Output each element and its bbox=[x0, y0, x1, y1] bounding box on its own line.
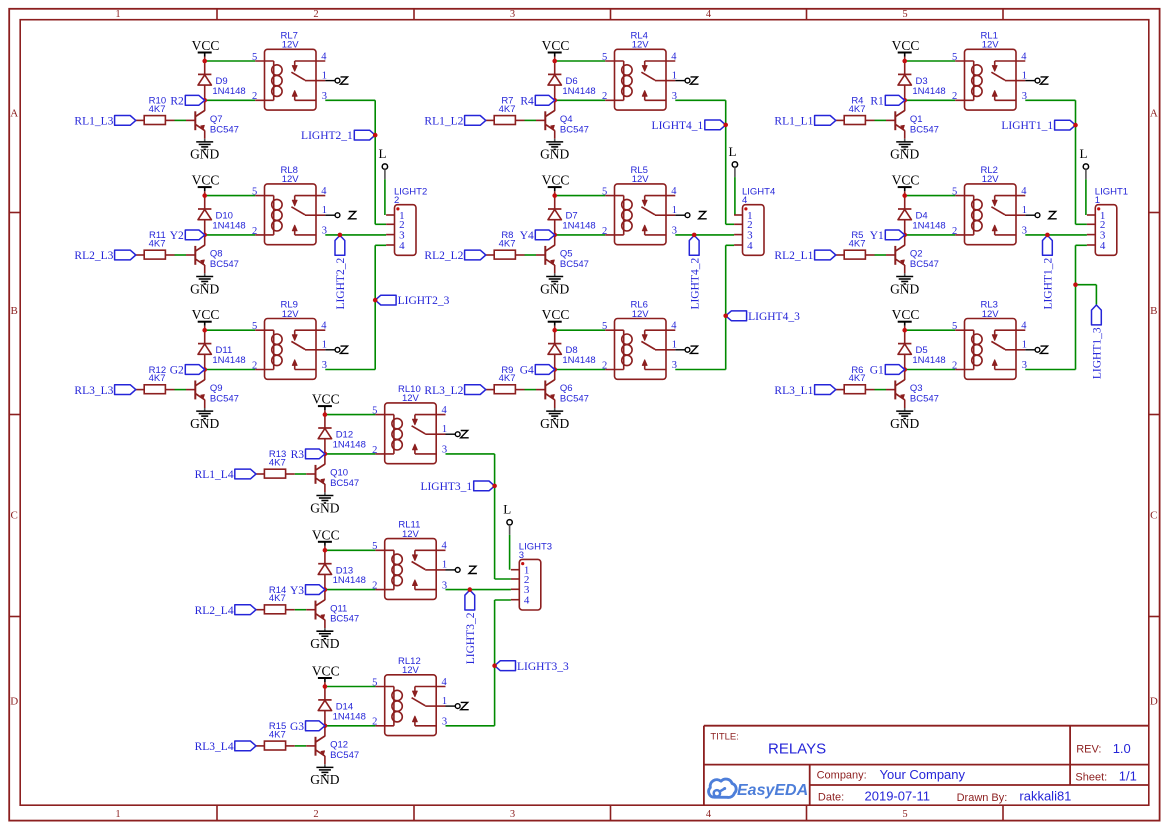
svg-text:LIGHT1_3: LIGHT1_3 bbox=[1092, 327, 1104, 379]
svg-text:1: 1 bbox=[442, 424, 447, 435]
svg-text:BC547: BC547 bbox=[560, 124, 589, 135]
svg-text:RELAYS: RELAYS bbox=[768, 740, 826, 757]
svg-text:RL3_L4: RL3_L4 bbox=[195, 741, 234, 753]
svg-text:1: 1 bbox=[1095, 195, 1100, 206]
svg-text:Q9: Q9 bbox=[210, 383, 223, 394]
svg-text:GND: GND bbox=[890, 147, 919, 162]
svg-text:4K7: 4K7 bbox=[269, 458, 286, 469]
svg-text:BC547: BC547 bbox=[210, 394, 239, 405]
svg-text:1N4148: 1N4148 bbox=[212, 86, 245, 97]
svg-text:1: 1 bbox=[672, 340, 677, 351]
svg-text:12V: 12V bbox=[402, 529, 420, 540]
svg-text:VCC: VCC bbox=[192, 173, 220, 188]
svg-text:4: 4 bbox=[1021, 186, 1027, 197]
svg-text:1N4148: 1N4148 bbox=[333, 439, 366, 450]
svg-text:LIGHT3_1: LIGHT3_1 bbox=[420, 481, 472, 493]
svg-text:LIGHT3_3: LIGHT3_3 bbox=[517, 661, 569, 673]
svg-text:RL1_L4: RL1_L4 bbox=[195, 469, 234, 481]
svg-text:Q1: Q1 bbox=[910, 114, 923, 125]
svg-text:1: 1 bbox=[115, 9, 120, 20]
svg-text:4K7: 4K7 bbox=[499, 373, 516, 384]
svg-text:VCC: VCC bbox=[192, 38, 220, 53]
svg-text:Q10: Q10 bbox=[330, 468, 348, 479]
svg-text:Q12: Q12 bbox=[330, 740, 348, 751]
svg-text:VCC: VCC bbox=[192, 307, 220, 322]
svg-text:1: 1 bbox=[322, 205, 327, 216]
svg-text:LIGHT4_1: LIGHT4_1 bbox=[652, 120, 704, 132]
svg-text:GND: GND bbox=[190, 147, 219, 162]
svg-text:LIGHT1_1: LIGHT1_1 bbox=[1001, 120, 1053, 132]
svg-text:R4: R4 bbox=[520, 96, 534, 108]
svg-text:VCC: VCC bbox=[542, 307, 570, 322]
svg-text:LIGHT2_3: LIGHT2_3 bbox=[398, 295, 450, 307]
svg-text:LIGHT2_1: LIGHT2_1 bbox=[301, 130, 353, 142]
svg-text:5: 5 bbox=[602, 186, 607, 197]
svg-text:2: 2 bbox=[952, 360, 957, 371]
svg-text:LIGHT1_2: LIGHT1_2 bbox=[1043, 258, 1055, 310]
svg-text:5: 5 bbox=[372, 677, 377, 688]
svg-text:D: D bbox=[10, 696, 18, 708]
svg-text:4K7: 4K7 bbox=[149, 104, 166, 115]
svg-text:2: 2 bbox=[252, 226, 257, 237]
svg-text:R2: R2 bbox=[170, 96, 184, 108]
svg-text:4K7: 4K7 bbox=[499, 239, 516, 250]
svg-text:1: 1 bbox=[322, 340, 327, 351]
svg-text:VCC: VCC bbox=[312, 664, 340, 679]
svg-text:A: A bbox=[1150, 108, 1158, 120]
svg-text:12V: 12V bbox=[282, 174, 300, 185]
svg-text:1N4148: 1N4148 bbox=[333, 575, 366, 586]
svg-text:5: 5 bbox=[952, 52, 957, 63]
svg-text:1N4148: 1N4148 bbox=[912, 86, 945, 97]
svg-text:GND: GND bbox=[890, 281, 919, 296]
svg-text:Date:: Date: bbox=[818, 791, 844, 803]
svg-text:5: 5 bbox=[902, 809, 907, 820]
svg-text:12V: 12V bbox=[632, 309, 650, 320]
svg-text:G4: G4 bbox=[520, 365, 534, 377]
svg-text:VCC: VCC bbox=[312, 527, 340, 542]
svg-text:12V: 12V bbox=[402, 393, 420, 404]
svg-text:5: 5 bbox=[372, 405, 377, 416]
svg-text:GND: GND bbox=[310, 772, 339, 787]
svg-text:C: C bbox=[1150, 510, 1157, 522]
svg-text:BC547: BC547 bbox=[560, 259, 589, 270]
svg-text:BC547: BC547 bbox=[910, 124, 939, 135]
svg-text:GND: GND bbox=[540, 281, 569, 296]
svg-text:4: 4 bbox=[399, 240, 405, 252]
svg-text:4: 4 bbox=[442, 405, 448, 416]
svg-text:1N4148: 1N4148 bbox=[912, 220, 945, 231]
svg-text:3: 3 bbox=[519, 550, 524, 561]
svg-text:L: L bbox=[1080, 146, 1088, 161]
svg-text:RL3_L1: RL3_L1 bbox=[774, 385, 813, 397]
svg-text:A: A bbox=[10, 108, 18, 120]
svg-text:D: D bbox=[1150, 696, 1158, 708]
svg-text:Y2: Y2 bbox=[170, 230, 184, 242]
svg-text:4: 4 bbox=[671, 321, 677, 332]
svg-text:4: 4 bbox=[1100, 240, 1106, 252]
svg-text:LIGHT2_2: LIGHT2_2 bbox=[335, 258, 347, 310]
svg-text:2: 2 bbox=[602, 360, 607, 371]
svg-text:RL2_L3: RL2_L3 bbox=[74, 250, 113, 262]
svg-text:3: 3 bbox=[510, 809, 515, 820]
svg-text:1: 1 bbox=[672, 205, 677, 216]
svg-text:12V: 12V bbox=[982, 309, 1000, 320]
svg-text:TITLE:: TITLE: bbox=[710, 732, 739, 743]
svg-text:G3: G3 bbox=[290, 721, 304, 733]
svg-text:Company:: Company: bbox=[817, 769, 867, 781]
svg-text:Q4: Q4 bbox=[560, 114, 573, 125]
svg-text:1N4148: 1N4148 bbox=[912, 355, 945, 366]
svg-text:Q2: Q2 bbox=[910, 249, 923, 260]
svg-text:4: 4 bbox=[742, 195, 747, 206]
svg-text:BC547: BC547 bbox=[910, 394, 939, 405]
svg-text:4: 4 bbox=[524, 595, 530, 607]
svg-text:BC547: BC547 bbox=[210, 259, 239, 270]
svg-text:5: 5 bbox=[372, 541, 377, 552]
svg-text:L: L bbox=[503, 502, 511, 517]
svg-text:R3: R3 bbox=[291, 449, 305, 461]
svg-text:BC547: BC547 bbox=[910, 259, 939, 270]
svg-text:VCC: VCC bbox=[312, 392, 340, 407]
svg-text:12V: 12V bbox=[282, 40, 300, 51]
svg-text:G2: G2 bbox=[170, 365, 184, 377]
svg-text:1: 1 bbox=[442, 696, 447, 707]
svg-text:Q3: Q3 bbox=[910, 383, 923, 394]
svg-text:1: 1 bbox=[1022, 205, 1027, 216]
svg-text:1: 1 bbox=[672, 70, 677, 81]
svg-text:4: 4 bbox=[442, 677, 448, 688]
svg-text:1: 1 bbox=[1022, 70, 1027, 81]
svg-text:REV:: REV: bbox=[1076, 744, 1101, 756]
svg-text:RL1_L1: RL1_L1 bbox=[774, 116, 813, 128]
svg-text:4: 4 bbox=[706, 809, 712, 820]
svg-text:12V: 12V bbox=[982, 174, 1000, 185]
svg-text:1N4148: 1N4148 bbox=[333, 711, 366, 722]
svg-text:12V: 12V bbox=[402, 665, 420, 676]
svg-text:RL2_L2: RL2_L2 bbox=[424, 250, 463, 262]
svg-text:Y4: Y4 bbox=[520, 230, 534, 242]
svg-text:RL1_L2: RL1_L2 bbox=[424, 116, 463, 128]
svg-text:2019-07-11: 2019-07-11 bbox=[865, 789, 931, 804]
svg-text:5: 5 bbox=[602, 321, 607, 332]
svg-text:RL2_L4: RL2_L4 bbox=[195, 605, 234, 617]
svg-text:4: 4 bbox=[321, 51, 327, 62]
svg-text:1: 1 bbox=[322, 70, 327, 81]
svg-text:12V: 12V bbox=[632, 174, 650, 185]
svg-text:4: 4 bbox=[747, 240, 753, 252]
svg-text:Q6: Q6 bbox=[560, 383, 573, 394]
svg-text:2: 2 bbox=[952, 226, 957, 237]
svg-text:4K7: 4K7 bbox=[849, 373, 866, 384]
svg-text:1: 1 bbox=[115, 809, 120, 820]
svg-text:LIGHT4_2: LIGHT4_2 bbox=[689, 258, 701, 310]
svg-text:Sheet:: Sheet: bbox=[1075, 771, 1107, 783]
svg-text:4: 4 bbox=[1021, 51, 1027, 62]
svg-text:1N4148: 1N4148 bbox=[212, 355, 245, 366]
svg-text:GND: GND bbox=[540, 416, 569, 431]
svg-text:5: 5 bbox=[902, 9, 907, 20]
svg-text:LIGHT4_3: LIGHT4_3 bbox=[748, 311, 800, 323]
svg-text:L: L bbox=[379, 146, 387, 161]
svg-text:4: 4 bbox=[1021, 321, 1027, 332]
svg-text:4: 4 bbox=[321, 186, 327, 197]
svg-text:4: 4 bbox=[321, 321, 327, 332]
svg-text:5: 5 bbox=[952, 321, 957, 332]
svg-text:5: 5 bbox=[252, 321, 257, 332]
svg-text:EasyEDA: EasyEDA bbox=[737, 782, 808, 799]
svg-text:2: 2 bbox=[313, 809, 318, 820]
svg-text:Y1: Y1 bbox=[870, 230, 884, 242]
svg-text:2: 2 bbox=[372, 445, 377, 456]
svg-text:2: 2 bbox=[252, 91, 257, 102]
svg-text:4K7: 4K7 bbox=[849, 239, 866, 250]
svg-text:R1: R1 bbox=[870, 96, 884, 108]
svg-text:Drawn By:: Drawn By: bbox=[957, 792, 1008, 804]
svg-text:Your Company: Your Company bbox=[880, 767, 966, 782]
svg-text:4K7: 4K7 bbox=[149, 239, 166, 250]
svg-text:GND: GND bbox=[890, 416, 919, 431]
svg-text:RL2_L1: RL2_L1 bbox=[774, 250, 813, 262]
svg-text:Y3: Y3 bbox=[290, 585, 304, 597]
svg-text:VCC: VCC bbox=[892, 173, 920, 188]
svg-text:3: 3 bbox=[510, 9, 515, 20]
svg-text:5: 5 bbox=[602, 52, 607, 63]
svg-text:5: 5 bbox=[952, 186, 957, 197]
svg-text:BC547: BC547 bbox=[210, 124, 239, 135]
svg-text:4K7: 4K7 bbox=[149, 373, 166, 384]
svg-text:4K7: 4K7 bbox=[269, 729, 286, 740]
svg-text:2: 2 bbox=[372, 581, 377, 592]
svg-text:VCC: VCC bbox=[892, 38, 920, 53]
svg-text:G1: G1 bbox=[870, 365, 884, 377]
svg-text:RL3_L2: RL3_L2 bbox=[424, 385, 463, 397]
svg-text:B: B bbox=[11, 305, 18, 317]
svg-text:VCC: VCC bbox=[542, 38, 570, 53]
svg-text:12V: 12V bbox=[982, 40, 1000, 51]
svg-text:1N4148: 1N4148 bbox=[212, 220, 245, 231]
svg-text:4K7: 4K7 bbox=[269, 593, 286, 604]
svg-text:Q5: Q5 bbox=[560, 249, 573, 260]
svg-text:1N4148: 1N4148 bbox=[562, 355, 595, 366]
svg-text:1.0: 1.0 bbox=[1113, 741, 1131, 756]
svg-text:1: 1 bbox=[442, 560, 447, 571]
svg-text:5: 5 bbox=[252, 52, 257, 63]
svg-text:2: 2 bbox=[602, 91, 607, 102]
svg-text:1/1: 1/1 bbox=[1119, 768, 1137, 783]
svg-text:2: 2 bbox=[313, 9, 318, 20]
svg-text:RL1_L3: RL1_L3 bbox=[74, 116, 113, 128]
svg-text:Q7: Q7 bbox=[210, 114, 223, 125]
svg-text:L: L bbox=[729, 144, 737, 159]
svg-text:BC547: BC547 bbox=[330, 614, 359, 625]
svg-text:VCC: VCC bbox=[542, 173, 570, 188]
svg-text:12V: 12V bbox=[282, 309, 300, 320]
svg-text:C: C bbox=[11, 510, 18, 522]
svg-text:GND: GND bbox=[190, 281, 219, 296]
svg-text:VCC: VCC bbox=[892, 307, 920, 322]
svg-text:5: 5 bbox=[252, 186, 257, 197]
svg-text:1N4148: 1N4148 bbox=[562, 86, 595, 97]
svg-text:BC547: BC547 bbox=[330, 478, 359, 489]
svg-text:4: 4 bbox=[671, 51, 677, 62]
svg-text:4K7: 4K7 bbox=[849, 104, 866, 115]
svg-text:12V: 12V bbox=[632, 40, 650, 51]
svg-text:GND: GND bbox=[310, 500, 339, 515]
svg-text:GND: GND bbox=[310, 636, 339, 651]
svg-text:4: 4 bbox=[706, 9, 712, 20]
svg-text:GND: GND bbox=[540, 147, 569, 162]
svg-text:2: 2 bbox=[602, 226, 607, 237]
svg-text:RL3_L3: RL3_L3 bbox=[74, 385, 113, 397]
svg-text:4: 4 bbox=[671, 186, 677, 197]
svg-text:Q11: Q11 bbox=[330, 603, 347, 614]
svg-text:2: 2 bbox=[372, 717, 377, 728]
svg-text:GND: GND bbox=[190, 416, 219, 431]
svg-text:1N4148: 1N4148 bbox=[562, 220, 595, 231]
svg-text:LIGHT3_2: LIGHT3_2 bbox=[465, 612, 477, 664]
svg-text:B: B bbox=[1150, 305, 1157, 317]
svg-text:rakkali81: rakkali81 bbox=[1019, 789, 1071, 804]
svg-text:1: 1 bbox=[1022, 340, 1027, 351]
svg-text:BC547: BC547 bbox=[560, 394, 589, 405]
svg-text:2: 2 bbox=[252, 360, 257, 371]
svg-text:2: 2 bbox=[952, 91, 957, 102]
svg-text:2: 2 bbox=[394, 195, 399, 206]
svg-text:BC547: BC547 bbox=[330, 750, 359, 761]
svg-text:4K7: 4K7 bbox=[499, 104, 516, 115]
svg-text:4: 4 bbox=[442, 541, 448, 552]
svg-text:Q8: Q8 bbox=[210, 249, 223, 260]
